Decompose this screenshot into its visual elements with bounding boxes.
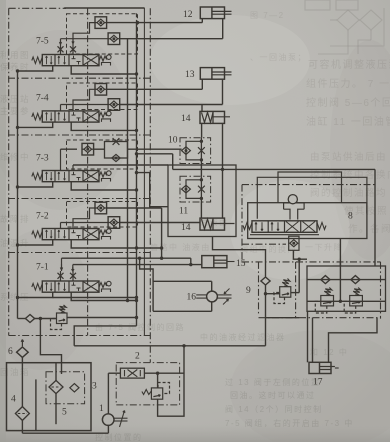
svg-text:维修中: 维修中 [0,152,30,162]
svg-text:油缸 11 一回油管路: 油缸 11 一回油管路 [306,115,390,128]
svg-text:一下升降: 一下升降 [305,242,343,252]
svg-text:2: 2 [135,352,140,362]
svg-text:、一回油泵；: 、一回油泵； [250,52,307,62]
svg-text:回油。这时可以通过: 回油。这时可以通过 [230,390,316,400]
svg-text:油温升: 油温升 [0,238,30,248]
svg-text:17: 17 [313,378,323,388]
svg-text:管路中 油液由: 管路中 油液由 [150,242,211,252]
svg-text:5: 5 [62,408,67,418]
svg-text:14: 14 [181,223,191,233]
svg-text:中的油液经过滤油器: 中的油液经过滤油器 [200,332,286,342]
svg-text:11: 11 [179,207,188,217]
svg-text:9: 9 [246,286,251,296]
svg-text:组件压力。 7 一温度: 组件压力。 7 一温度 [306,77,390,90]
svg-text:7-4: 7-4 [36,94,49,104]
svg-text:故障排: 故障排 [0,214,30,224]
svg-text:回油箱: 回油箱 [0,367,30,377]
svg-text:控制阀 5—6个回油: 控制阀 5—6个回油 [306,96,390,109]
svg-text:利用图: 利用图 [0,50,30,60]
svg-text:控制系统中各换向: 控制系统中各换向 [310,169,390,181]
svg-text:14: 14 [181,114,191,124]
svg-text:12: 12 [183,10,193,20]
svg-text:液压站: 液压站 [0,94,30,104]
svg-text:过 13 阀于左侧的位置: 过 13 阀于左侧的位置 [225,377,320,387]
svg-text:7-3: 7-3 [36,154,49,164]
svg-text:作。各阀: 作。各阀 [348,223,390,235]
svg-text:7-5 阀组，右的开启由 7-3 中: 7-5 阀组，右的开启由 7-3 中 [225,418,354,428]
svg-text:15: 15 [236,259,246,269]
svg-text:1: 1 [99,404,104,414]
svg-text:由泵站供油后由: 由泵站供油后由 [310,151,387,163]
svg-text:10: 10 [168,136,178,146]
svg-text:图 7—2: 图 7—2 [250,11,285,20]
svg-text:7-2: 7-2 [36,212,49,222]
svg-text:4: 4 [11,395,16,405]
svg-text:7-5: 7-5 [36,37,49,47]
svg-text:16: 16 [187,293,197,303]
svg-text:7-1: 7-1 [36,263,49,273]
svg-text:可容机调整液压泵: 可容机调整液压泵 [308,58,390,71]
svg-text:8: 8 [348,212,353,222]
svg-text:阀 14（2个）同时控制: 阀 14（2个）同时控制 [225,404,323,414]
svg-text:6: 6 [8,347,13,357]
svg-text:由 7-5 阀控制的回路: 由 7-5 阀控制的回路 [95,322,185,332]
svg-text:主要参: 主要参 [0,106,30,116]
svg-text:13: 13 [185,70,195,80]
svg-text:3: 3 [92,382,97,392]
